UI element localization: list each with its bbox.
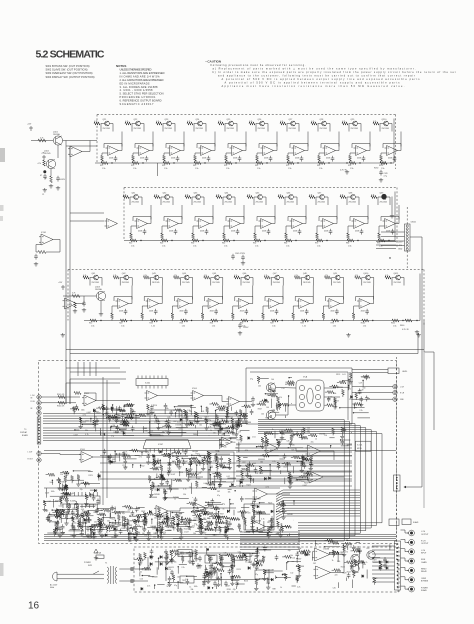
svg-text:16: 16 (28, 601, 40, 612)
transistor Q102 (46, 159, 55, 168)
wire opamp out stage 4 (241, 205, 245, 224)
sub-module box 2 (208, 452, 234, 482)
svg-text:4.7k: 4.7k (265, 446, 268, 448)
svg-text:0.01: 0.01 (292, 558, 295, 560)
svg-text:1k: 1k (349, 389, 351, 391)
op-amp U29 (383, 219, 396, 229)
resistor R35 (185, 195, 191, 198)
svg-text:C45: C45 (45, 510, 48, 512)
resistor R310 on rail (254, 239, 261, 242)
svg-text:C62: C62 (272, 409, 275, 411)
svg-text:R307: R307 (358, 393, 362, 395)
svg-text:100: 100 (271, 379, 274, 381)
svg-text:R88: R88 (128, 541, 131, 543)
svg-text:0.047: 0.047 (372, 546, 376, 548)
transistor Q36 (289, 195, 294, 200)
wire opamp out stage 7 (334, 205, 338, 224)
svg-text:1.5k: 1.5k (381, 168, 384, 170)
resistor R25 (156, 122, 162, 125)
op-amp U12 (137, 146, 150, 156)
svg-text:2SC1345: 2SC1345 (333, 282, 341, 284)
svg-text:4.7k: 4.7k (218, 121, 221, 123)
svg-text:SW5: SW5 (88, 565, 92, 567)
wire bus A into lower board (66, 383, 120, 404)
bus wire 7 (corner) (258, 432, 377, 526)
svg-text:4558: 4558 (326, 158, 330, 160)
wire collector drop stage 1 (101, 124, 105, 132)
svg-text:100: 100 (154, 518, 157, 520)
svg-text:100: 100 (86, 519, 89, 521)
feedback wire stage 3 (166, 144, 184, 149)
svg-text:R62: R62 (284, 243, 287, 245)
svg-text:2SC1345: 2SC1345 (349, 201, 357, 203)
op-amp U517 (313, 548, 330, 561)
bus wire 6 (corner) (258, 430, 371, 528)
bus wire 3 (corner) (258, 424, 355, 536)
svg-text:47μ: 47μ (311, 441, 314, 443)
resistor R150 (38, 250, 46, 253)
wire U10 output (53, 240, 60, 249)
svg-text:47μ: 47μ (250, 379, 253, 381)
svg-text:C62: C62 (141, 466, 144, 468)
svg-text:R88: R88 (215, 457, 218, 459)
feedback wire stage 7 (290, 144, 308, 149)
svg-text:4558: 4558 (361, 311, 365, 313)
resistor R28 on rail (194, 161, 201, 164)
svg-text:C45: C45 (177, 576, 180, 578)
svg-text:4.7k: 4.7k (335, 552, 338, 554)
jack MAIN IN R (37, 458, 41, 462)
resistor R313 (309, 195, 315, 198)
ground row1 end (345, 170, 349, 174)
feedback wire stage 2 (144, 297, 162, 302)
svg-text:1k: 1k (280, 524, 282, 526)
transistor Q46 (245, 275, 250, 280)
svg-text:0.01: 0.01 (237, 519, 240, 521)
wire opamp out stage 8 (336, 132, 340, 151)
svg-text:4.7k: 4.7k (340, 194, 343, 196)
wires transformer to board (119, 568, 130, 570)
svg-text:4558: 4558 (262, 231, 266, 233)
row2 bottom rail (124, 240, 395, 242)
feedback wire stage 3 (195, 217, 213, 222)
svg-text:R216: R216 (120, 431, 124, 433)
wires plug to transformer (62, 573, 104, 575)
svg-text:4.7k: 4.7k (345, 551, 348, 553)
svg-text:2SC1345: 2SC1345 (134, 128, 142, 130)
feedback wire stage 3 (174, 297, 192, 302)
transistor Q410 (365, 275, 370, 280)
resistor R32 on rail (130, 239, 137, 242)
svg-text:1k: 1k (75, 501, 77, 503)
svg-text:0.047: 0.047 (146, 570, 150, 572)
svg-text:R88: R88 (177, 554, 180, 556)
svg-text:R307: R307 (207, 484, 211, 486)
svg-text:100: 100 (266, 407, 269, 409)
ground Q103 (99, 312, 103, 316)
wire collector drop stage 2 (120, 278, 124, 286)
op-amp U512 (264, 443, 278, 454)
wire opamp out stage 7 (310, 286, 314, 304)
svg-text:R42: R42 (193, 165, 196, 167)
resistor R218 on rail (349, 161, 356, 164)
svg-text:BOARD: BOARD (22, 434, 29, 437)
svg-text:4.7k: 4.7k (124, 452, 127, 454)
wire opamp out stage 3 (189, 286, 193, 304)
svg-text:R307: R307 (277, 467, 281, 469)
svg-text:0.047: 0.047 (184, 531, 188, 533)
svg-text:R307: R307 (171, 518, 175, 520)
svg-text:R52: R52 (210, 323, 213, 325)
transistor Q502 (266, 410, 275, 419)
wire opamp out stage 6 (274, 132, 278, 151)
svg-text:33k: 33k (81, 530, 84, 532)
output jack J20 (409, 530, 415, 536)
svg-text:220: 220 (128, 510, 131, 512)
svg-text:R216: R216 (341, 567, 345, 569)
transistor Q35 (258, 195, 263, 200)
feedback wire stage 1 (104, 144, 122, 149)
svg-text:47μ: 47μ (222, 504, 225, 506)
svg-text:4.7μ: 4.7μ (384, 176, 387, 178)
svg-text:47μ: 47μ (288, 550, 291, 552)
regulator IC -15 (180, 576, 194, 583)
transistor Q28 (322, 121, 327, 126)
svg-text:2SC1345: 2SC1345 (122, 282, 130, 284)
svg-text:1k: 1k (218, 451, 220, 453)
resistor R411 (234, 276, 240, 279)
svg-text:47μ: 47μ (188, 529, 191, 531)
resistor R26 on rail (163, 161, 170, 164)
svg-text:1.5k: 1.5k (162, 246, 165, 248)
resistor R23 (125, 122, 131, 125)
svg-text:C62: C62 (253, 463, 256, 465)
svg-text:33k: 33k (199, 456, 202, 458)
long vertical feed wires left block (102, 377, 104, 505)
ground U10 (34, 262, 38, 266)
op-amp U10 (left) (39, 234, 53, 245)
svg-text:3. ALL DIODES ARE 1S1588: 3. ALL DIODES ARE 1S1588 (120, 85, 159, 89)
row2 left dashed edge (123, 188, 125, 241)
transistor Q39 (382, 195, 387, 200)
dashed line through CN201 (406, 207, 408, 224)
bus band wires (43, 413, 248, 415)
svg-text:4. U001 - U009 1/4558: 4. U001 - U009 1/4558 (120, 88, 154, 92)
resistor R316 on rail (347, 239, 354, 242)
svg-text:2SK30A: 2SK30A (53, 133, 60, 136)
svg-text:R123: R123 (237, 440, 241, 442)
svg-text:C19: C19 (234, 435, 237, 437)
svg-text:1k: 1k (162, 520, 164, 522)
svg-text:4.7k: 4.7k (294, 275, 297, 277)
wire collector drop stage 7 (287, 124, 291, 132)
svg-text:1.5k: 1.5k (348, 246, 351, 248)
svg-text:1S1588: 1S1588 (97, 519, 103, 521)
transistor Q26 (260, 121, 265, 126)
transistor Q31 (134, 195, 139, 200)
wire collector drop stage 9 (332, 278, 336, 286)
resistor R217 (342, 122, 348, 125)
svg-text:4.7k: 4.7k (266, 487, 269, 489)
svg-text:4558: 4558 (233, 158, 237, 160)
svg-text:4.7k: 4.7k (280, 121, 283, 123)
svg-text:BYPASS: BYPASS (421, 580, 429, 583)
feedback wire stage 8 (350, 217, 368, 222)
fan bus diagonals (276, 490, 283, 494)
svg-text:56k: 56k (199, 425, 202, 427)
wire bus branch row2 top (66, 145, 97, 147)
bus wire B (left vertical) (69, 146, 71, 404)
svg-text:R102: R102 (379, 165, 383, 167)
feedback wire stage 9 (356, 297, 374, 302)
transistor Q23 (167, 121, 172, 126)
svg-text:Q410: Q410 (363, 273, 369, 275)
wire collector drop stage 4 (194, 124, 198, 132)
svg-text:R307: R307 (64, 512, 68, 514)
op-amp U21 (135, 219, 148, 229)
op-amp U33 (176, 299, 189, 309)
switch position list (46, 64, 95, 79)
svg-text:10k: 10k (149, 512, 152, 514)
svg-text:T1: T1 (105, 563, 107, 565)
power indicator LED (254, 558, 258, 562)
svg-text:GND: GND (398, 249, 403, 251)
op-amp U13 (168, 146, 181, 156)
power caps row (198, 556, 202, 562)
op-amp U510 (154, 506, 168, 517)
svg-text:4.7k: 4.7k (137, 525, 140, 527)
svg-text:1.5k: 1.5k (363, 326, 366, 328)
horizontal bus into output (240, 531, 300, 533)
svg-text:R88: R88 (223, 406, 226, 408)
svg-text:1S1588: 1S1588 (152, 576, 158, 578)
wire collector drop stage 5 (211, 278, 215, 286)
svg-text:47μ: 47μ (233, 589, 236, 591)
output jack J21 (409, 539, 415, 545)
svg-text:C62: C62 (94, 522, 97, 524)
svg-text:100: 100 (284, 578, 287, 580)
IC501 box right (356, 441, 372, 451)
resistor R215 (311, 122, 317, 125)
svg-text:R307: R307 (206, 456, 210, 458)
svg-text:10k: 10k (228, 492, 231, 494)
wire opamp out stage 1 (148, 205, 152, 224)
sub-module box 1 (150, 410, 182, 436)
wire collector drop stage 5 (225, 124, 229, 132)
svg-text:100: 100 (290, 573, 293, 575)
svg-text:0.01: 0.01 (201, 411, 204, 413)
svg-text:C45: C45 (366, 548, 369, 550)
wire Q101 to row 1 (63, 140, 97, 142)
svg-text:2SK30A: 2SK30A (95, 288, 102, 291)
op-amp U511 (192, 503, 206, 514)
wire rail drop to row2 (157, 163, 159, 176)
svg-text:10k: 10k (290, 555, 293, 557)
wire opamp out stage 6 (280, 286, 284, 304)
filler VCA surroundings (270, 394, 277, 397)
svg-text:0.01: 0.01 (342, 374, 345, 376)
svg-text:INPUT: INPUT (421, 553, 427, 555)
resistor R416 on rail (301, 319, 308, 322)
svg-text:1k: 1k (245, 525, 247, 527)
svg-text:C45: C45 (216, 577, 219, 579)
wire opamp out stage 1 (129, 286, 133, 304)
svg-text:2.2k: 2.2k (255, 473, 258, 475)
wire collector drop stage 3 (150, 278, 154, 286)
svg-text:R102: R102 (361, 323, 365, 325)
resistor R314 on rail (316, 239, 323, 242)
svg-text:C19: C19 (253, 522, 256, 524)
svg-text:C19: C19 (359, 382, 362, 384)
power module rects (205, 555, 217, 563)
svg-text:4558: 4558 (388, 158, 392, 160)
svg-text:0.047: 0.047 (47, 501, 51, 503)
svg-text:60Hz: 60Hz (50, 587, 54, 589)
svg-text:1k: 1k (231, 565, 233, 567)
svg-text:IC507: IC507 (158, 444, 163, 446)
resistor R312 on rail (285, 239, 292, 242)
svg-text:4558: 4558 (210, 311, 214, 313)
resistor R34 on rail (161, 239, 168, 242)
ground C103 (82, 308, 86, 312)
svg-text:R88: R88 (273, 589, 276, 591)
rectifier diodes (150, 556, 152, 559)
svg-text:0.01: 0.01 (150, 431, 153, 433)
svg-text:IC502: IC502 (145, 383, 150, 385)
wire CN201 down right (410, 237, 422, 252)
svg-text:0.047: 0.047 (45, 493, 49, 495)
svg-text:220: 220 (124, 467, 127, 469)
svg-text:2SC1345: 2SC1345 (380, 201, 388, 203)
IC U507 (display driver) (143, 440, 191, 449)
row1 end wire (393, 119, 395, 164)
svg-text:R216: R216 (179, 472, 183, 474)
svg-text:C302 47/16V: C302 47/16V (235, 253, 246, 255)
wire L in (41, 396, 80, 398)
svg-text:4.7k: 4.7k (216, 194, 219, 196)
svg-text:33k: 33k (327, 399, 330, 401)
svg-text:IC 501: IC 501 (357, 445, 362, 447)
svg-text:2SC1345: 2SC1345 (165, 128, 173, 130)
capacitor C150 (34, 254, 38, 260)
resistor R211 (249, 122, 255, 125)
svg-text:R123: R123 (268, 502, 272, 504)
wires to right edge jacks (352, 386, 393, 388)
svg-text:SW3 OVER EASY SW. (OUT POSITIO: SW3 OVER EASY SW. (OUT POSITION) (46, 71, 93, 75)
svg-text:R307: R307 (297, 559, 301, 561)
wires U501 out (96, 400, 130, 402)
svg-text:1k: 1k (177, 521, 179, 523)
svg-text:1.5k: 1.5k (195, 168, 198, 170)
svg-text:R216: R216 (304, 482, 308, 484)
svg-text:R307: R307 (226, 585, 230, 587)
svg-text:56k: 56k (158, 519, 161, 521)
svg-text:4558: 4558 (200, 231, 204, 233)
svg-text:R307: R307 (167, 468, 171, 470)
filler cluster third band b (158, 522, 161, 528)
filler centre column 2 (233, 517, 240, 520)
svg-text:0.01: 0.01 (246, 473, 249, 475)
svg-text:IC504: IC504 (192, 388, 197, 390)
jack right edge 3 (393, 397, 397, 401)
wire opamp out stage 5 (243, 132, 247, 151)
resistor R36 on rail (192, 239, 199, 242)
svg-text:4.7k: 4.7k (373, 121, 376, 123)
svg-text:R216: R216 (268, 478, 272, 480)
svg-text:R72: R72 (286, 165, 289, 167)
connector CN5 (395, 541, 401, 590)
row3 left dashed edge (67, 270, 69, 321)
VCA internal transistors (299, 385, 304, 390)
svg-text:47μ: 47μ (208, 420, 211, 422)
resistor R45 (143, 276, 149, 279)
resistor R27 (187, 122, 193, 125)
svg-text:C45: C45 (182, 460, 185, 462)
svg-text:100: 100 (261, 413, 264, 415)
transistor Q411 (396, 275, 401, 280)
svg-text:SLAVE: SLAVE (413, 521, 419, 524)
svg-text:4.7k: 4.7k (371, 194, 374, 196)
op-amp U14 (199, 146, 212, 156)
svg-text:C45: C45 (144, 519, 147, 521)
resistor R422 on rail (392, 319, 399, 322)
svg-text:4558: 4558 (293, 231, 297, 233)
svg-text:22/16V: 22/16V (243, 327, 249, 329)
transistor Q512 (367, 551, 375, 559)
svg-text:2.2k: 2.2k (258, 445, 261, 447)
filler cluster second row (216, 457, 219, 463)
wires lower board top-left mesh (77, 362, 79, 376)
svg-text:0.047: 0.047 (200, 531, 204, 533)
svg-text:C45: C45 (292, 444, 295, 446)
svg-text:2SC1345: 2SC1345 (196, 128, 204, 130)
svg-text:R12: R12 (129, 243, 132, 245)
svg-text:2SC1345: 2SC1345 (351, 128, 359, 130)
power rail wires (192, 552, 260, 554)
svg-text:10k: 10k (155, 532, 158, 534)
op-amp U27 (321, 219, 334, 229)
jack R CH IN (37, 401, 41, 405)
svg-text:CN201: CN201 (411, 222, 417, 224)
connector J102 (43, 155, 45, 160)
svg-text:47μ: 47μ (130, 507, 133, 509)
svg-text:SW1 BYPASS SW. (OUT POSITION): SW1 BYPASS SW. (OUT POSITION) (46, 64, 90, 68)
svg-text:56k: 56k (363, 564, 366, 566)
wires U517/518 (330, 554, 345, 556)
svg-text:R123: R123 (237, 569, 241, 571)
svg-text:R307: R307 (61, 482, 65, 484)
wire collector drop stage 1 (90, 278, 94, 286)
row3 bottom rail (84, 320, 420, 322)
svg-text:2.2k: 2.2k (170, 453, 173, 455)
transistor Q41 (94, 275, 99, 280)
svg-text:R216: R216 (227, 589, 231, 591)
svg-text:R92: R92 (331, 323, 334, 325)
transistor Q210 (384, 121, 389, 126)
svg-text:R92: R92 (377, 243, 380, 245)
op-amp U503 (145, 391, 158, 401)
svg-text:C62: C62 (172, 561, 175, 563)
op-amp U515 (253, 488, 268, 500)
svg-text:4.7k: 4.7k (38, 163, 41, 165)
output jack J22 (409, 549, 415, 555)
svg-text:R123: R123 (89, 475, 93, 477)
svg-text:4.7k: 4.7k (154, 194, 157, 196)
svg-text:1S1588: 1S1588 (192, 451, 198, 453)
svg-text:1S1588: 1S1588 (175, 425, 181, 427)
svg-text:220: 220 (213, 461, 216, 463)
wire collector drop stage 10 (362, 278, 366, 286)
